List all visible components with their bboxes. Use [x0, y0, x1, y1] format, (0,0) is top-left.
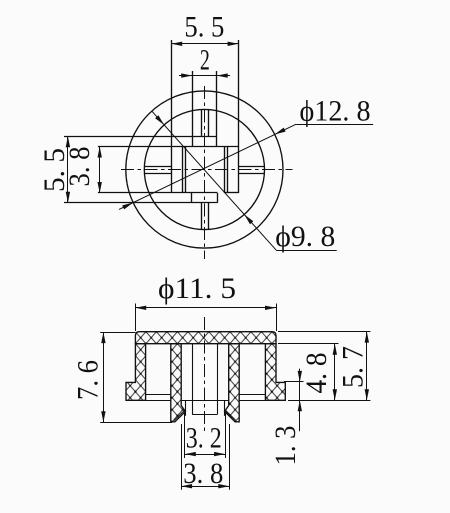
slot far bottom edge [192, 414, 217, 416]
left bar inner line [182, 147, 184, 194]
dim 3.2 ext left [184, 413, 186, 458]
dim 3.8 arrow left [181, 484, 192, 488]
wire top edge / 5.5 ext top [64, 136, 217, 138]
dim 3.8 left arrow bottom [98, 182, 102, 193]
leader phi12.8 landing [296, 124, 373, 126]
wire bottom T-bar edge / 5.5 ext bottom [64, 202, 218, 204]
dim 3.2 arrow left [185, 452, 196, 456]
dim 3.2 arrow right [214, 452, 225, 456]
dim 5.5 left line [67, 136, 69, 202]
leader phi12.8 arrow upper-right [275, 128, 286, 135]
wire / 3.8 ext top [98, 146, 239, 148]
cavity floor line right [239, 394, 265, 396]
cavity floor line left [146, 394, 171, 396]
dim 3.2 ext right [225, 413, 227, 458]
left bar outer edge / 5.5 ext left [171, 40, 173, 193]
dim phi11.5 arrow right [265, 306, 276, 310]
dim 4.8 arrow bottom [333, 389, 337, 400]
left slit bottom edge [144, 173, 171, 175]
right slit bottom edge [239, 173, 265, 175]
svg-text:3. 8: 3. 8 [63, 147, 96, 187]
dim phi11.5 line [135, 307, 276, 309]
dim phi11.5 ext left [135, 304, 137, 332]
dim 4.8 ext top [278, 343, 339, 345]
bottom slit right edge [208, 203, 210, 230]
svg-text:7. 6: 7. 6 [72, 360, 105, 400]
svg-text:4. 8: 4. 8 [300, 353, 333, 394]
dim 2 arrow right [217, 73, 228, 77]
dim 1.3 ext [284, 381, 304, 383]
right bar inner edge [224, 147, 226, 194]
dim 4.8 line [334, 344, 336, 401]
bottom box right edge [217, 193, 219, 203]
section tube left wall with barb (hatched) [171, 344, 186, 422]
svg-text:3. 8: 3. 8 [183, 457, 223, 490]
dim 5.5 left arrow top [66, 136, 70, 147]
dim 7.6 ext top [100, 332, 135, 334]
dim 3.8 ext right [229, 424, 231, 490]
bottom slit left edge [201, 203, 203, 230]
dim 3.2 line [185, 454, 225, 456]
outer circle phi12.8 [126, 91, 283, 248]
right bar inner line [227, 147, 229, 194]
right bar outer edge / 5.5 ext right [238, 40, 240, 193]
dim 5.7 ext bottom [288, 400, 370, 402]
inner circle phi9.8 [144, 109, 264, 229]
svg-text:1. 3: 1. 3 [269, 426, 302, 466]
leader phi9.8 line [152, 111, 277, 251]
right prong chamfer inner line [226, 411, 236, 421]
left slit top edge [144, 166, 171, 168]
right bar bottom edge [224, 192, 238, 194]
section tube right wall with barb (hatched) [225, 344, 240, 422]
dim 5.7 arrow top [365, 332, 369, 343]
section left wall and foot (hatched) [126, 344, 146, 401]
dim 3.8 left line [99, 147, 101, 194]
dim 1.3 arrow upper [298, 371, 302, 382]
svg-text:ϕ11. 5: ϕ11. 5 [158, 272, 236, 305]
dim 7.6 ext bottom [100, 422, 172, 424]
dim 2 line [179, 75, 230, 77]
left prong chamfer inner line [174, 411, 184, 421]
wide slot left edge / 2 ext left [192, 71, 194, 147]
leader phi9.8 landing [277, 250, 337, 252]
dim phi11.5 ext right [276, 304, 278, 332]
dim 5.7 ext top [278, 331, 370, 333]
svg-text:5. 7: 5. 7 [337, 346, 370, 388]
top slit left edge [201, 110, 203, 137]
dim 5.5 left arrow bottom [66, 192, 70, 203]
skirt bottom seen line left [146, 400, 171, 402]
dim 3.8 left arrow top [98, 147, 102, 158]
far prong edge left [185, 401, 187, 416]
dim 3.8 arrow right [218, 484, 229, 488]
vertical centerline [204, 86, 206, 259]
dim 5.5 top arrow right [228, 42, 239, 46]
svg-text:5. 5: 5. 5 [184, 11, 224, 44]
dim 4.8 arrow top [333, 344, 337, 355]
wire / 3.8 ext bottom [98, 192, 218, 194]
dim 7.6 arrow bottom [101, 411, 105, 422]
leader phi9.8 arrow lower-right [244, 215, 253, 225]
svg-text:ϕ12. 8: ϕ12. 8 [300, 95, 371, 128]
section top plate (hatched) [135, 332, 276, 344]
dim 5.7 line [366, 332, 368, 401]
wide slot right edge / 2 ext right [216, 71, 218, 147]
dim 3.8 ext left [181, 424, 183, 490]
leader phi12.8 arrow lower-left [122, 203, 133, 210]
dim 5.5 top arrow left [171, 42, 182, 46]
leader phi9.8 arrow upper-left [155, 115, 164, 125]
dim 7.6 arrow top [101, 332, 105, 343]
far prong edge right [224, 401, 226, 416]
svg-text:3. 2: 3. 2 [186, 422, 222, 455]
svg-text:ϕ9. 8: ϕ9. 8 [275, 220, 335, 253]
bore far bottom line [181, 400, 229, 402]
left bar inner edge [185, 147, 187, 194]
right slit top edge [239, 166, 265, 168]
svg-text:2: 2 [200, 43, 210, 76]
top slit right edge [208, 110, 210, 137]
dim 1.3 line [299, 369, 301, 432]
slot far edge right [217, 344, 219, 415]
section right wall and foot (hatched) [265, 344, 285, 401]
dim phi11.5 arrow left [135, 306, 146, 310]
dim 5.5 top line [171, 43, 238, 45]
bottom box left edge [191, 193, 193, 203]
leader phi12.8 line [119, 124, 296, 209]
dim 3.8 line [181, 486, 229, 488]
slot far edge left [192, 344, 194, 415]
skirt bottom seen line right [239, 400, 265, 402]
section centerline [204, 317, 206, 431]
dim 5.7 arrow bottom [365, 389, 369, 400]
dim 1.3 arrow lower [298, 400, 302, 411]
dim 7.6 line [103, 332, 105, 422]
horizontal centerline [121, 169, 293, 171]
dim 2 arrow left [181, 73, 192, 77]
plate underside line [146, 343, 266, 345]
